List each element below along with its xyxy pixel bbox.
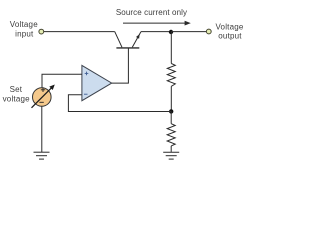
svg-text:input: input <box>15 29 34 38</box>
svg-text:Set: Set <box>10 85 23 94</box>
junction dot (emitter / resistor / output) <box>169 30 173 34</box>
label: Voltage output <box>215 22 243 40</box>
wire: input node to transistor collector <box>44 31 115 33</box>
wire: op-amp non-inverting input to set source <box>42 74 82 87</box>
base bar <box>116 47 139 49</box>
adjustment arrow <box>32 88 52 108</box>
svg-text:voltage: voltage <box>3 94 31 103</box>
source V1 (adjustable set-voltage source) <box>32 85 55 108</box>
feedback wire: junction to op-amp inverting input <box>68 95 171 112</box>
svg-text:Voltage: Voltage <box>10 20 38 29</box>
svg-text:Voltage: Voltage <box>215 22 243 31</box>
ground (under R2) <box>163 152 179 159</box>
emitter arrowhead <box>136 34 140 39</box>
arrow: current direction <box>123 21 191 26</box>
label: Set voltage <box>3 85 31 103</box>
node: input terminal <box>39 29 44 34</box>
junction dot (feedback tap) <box>169 109 173 113</box>
svg-text:output: output <box>218 32 242 41</box>
collector lead <box>115 32 122 48</box>
ground (under V1) <box>34 152 50 159</box>
op-amp U1 <box>82 65 112 100</box>
wire: emitter to output junction <box>141 31 171 33</box>
wire: source to ground <box>41 106 43 152</box>
node: output terminal <box>206 29 211 34</box>
resistor R2 (lower) <box>167 111 175 151</box>
label: Voltage input <box>10 20 38 38</box>
resistor R1 (upper) <box>167 32 175 111</box>
wire: junction to output node <box>171 31 206 33</box>
emitter lead <box>132 32 141 48</box>
wire: op-amp output to transistor base <box>112 48 129 83</box>
transistor Q1 <box>115 32 141 48</box>
svg-text:Source current only: Source current only <box>116 8 187 17</box>
